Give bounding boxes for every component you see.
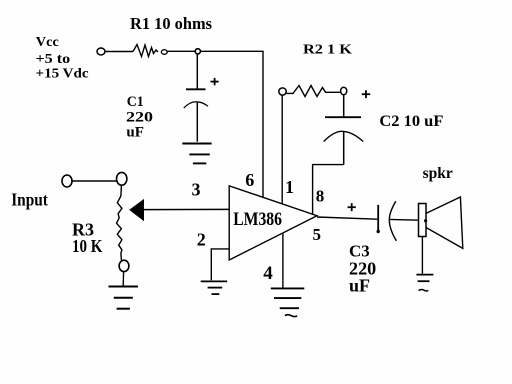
capacitor C3	[377, 201, 397, 241]
svg-text:uF: uF	[349, 276, 370, 296]
terminal R3 bottom	[119, 260, 129, 271]
svg-text:5: 5	[313, 225, 322, 244]
svg-text:10 K: 10 K	[72, 236, 103, 256]
svg-text:LM386: LM386	[233, 209, 282, 230]
ground speaker	[416, 275, 433, 291]
wire Vcc to R1	[105, 51, 133, 53]
terminal input left	[62, 175, 72, 187]
wire R3 to ground	[122, 272, 124, 286]
svg-text:R1 10 ohms: R1 10 ohms	[130, 14, 212, 33]
svg-text:+15 Vdc: +15 Vdc	[36, 66, 89, 81]
capacitor C1	[184, 54, 208, 142]
wire pin 2 to ground	[211, 249, 229, 280]
ground pin 2	[201, 281, 227, 294]
svg-text:Input: Input	[11, 190, 48, 210]
svg-text:1: 1	[285, 177, 294, 197]
svg-text:R2 1 K: R2 1 K	[303, 43, 352, 58]
label C3 plus	[348, 203, 356, 211]
resistor R2	[279, 86, 347, 97]
svg-text:uF: uF	[126, 125, 144, 141]
wire pin 1 (R2 left to op-amp)	[281, 95, 283, 203]
ground C1	[182, 144, 211, 164]
svg-text:C1: C1	[127, 94, 144, 110]
label C2 plus	[362, 90, 370, 98]
wire pin 3 (wiper to op-amp)	[144, 208, 230, 210]
svg-text:220: 220	[126, 109, 153, 125]
node A junction	[195, 49, 200, 54]
svg-text:C3: C3	[349, 241, 370, 260]
svg-text:C2 10 uF: C2 10 uF	[379, 113, 443, 130]
terminal input right	[117, 172, 127, 185]
wire R1 to junction	[167, 50, 195, 52]
svg-text:spkr: spkr	[423, 165, 453, 182]
wire output (pin 5 to C3)	[317, 217, 377, 219]
node after R1	[161, 50, 167, 55]
svg-text:4: 4	[263, 263, 273, 284]
wire pin 4 to ground	[282, 233, 284, 289]
svg-text:+5 to: +5 to	[36, 52, 71, 67]
capacitor C2	[324, 95, 364, 165]
label C1 plus	[211, 78, 219, 85]
svg-text:Vcc: Vcc	[36, 35, 59, 50]
resistor R1	[133, 45, 158, 57]
speaker SPKR	[419, 197, 463, 248]
wire junction to pin 6 (top rail and drop)	[200, 51, 263, 197]
svg-text:6: 6	[245, 170, 254, 190]
ground pin 4	[271, 288, 305, 316]
svg-text:2: 2	[197, 229, 206, 249]
ground R3	[109, 287, 139, 309]
wire C2 to pin 8	[313, 165, 344, 214]
terminal Vcc	[97, 48, 105, 55]
svg-text:8: 8	[316, 187, 325, 206]
wire C3 to speaker	[389, 218, 419, 221]
op-amp U1 LM386	[229, 186, 317, 260]
potentiometer R3	[117, 185, 122, 260]
wire input terminals	[72, 180, 116, 182]
wiper arrow of R3	[130, 200, 144, 220]
svg-text:3: 3	[192, 179, 201, 199]
wire speaker to ground	[421, 237, 423, 274]
